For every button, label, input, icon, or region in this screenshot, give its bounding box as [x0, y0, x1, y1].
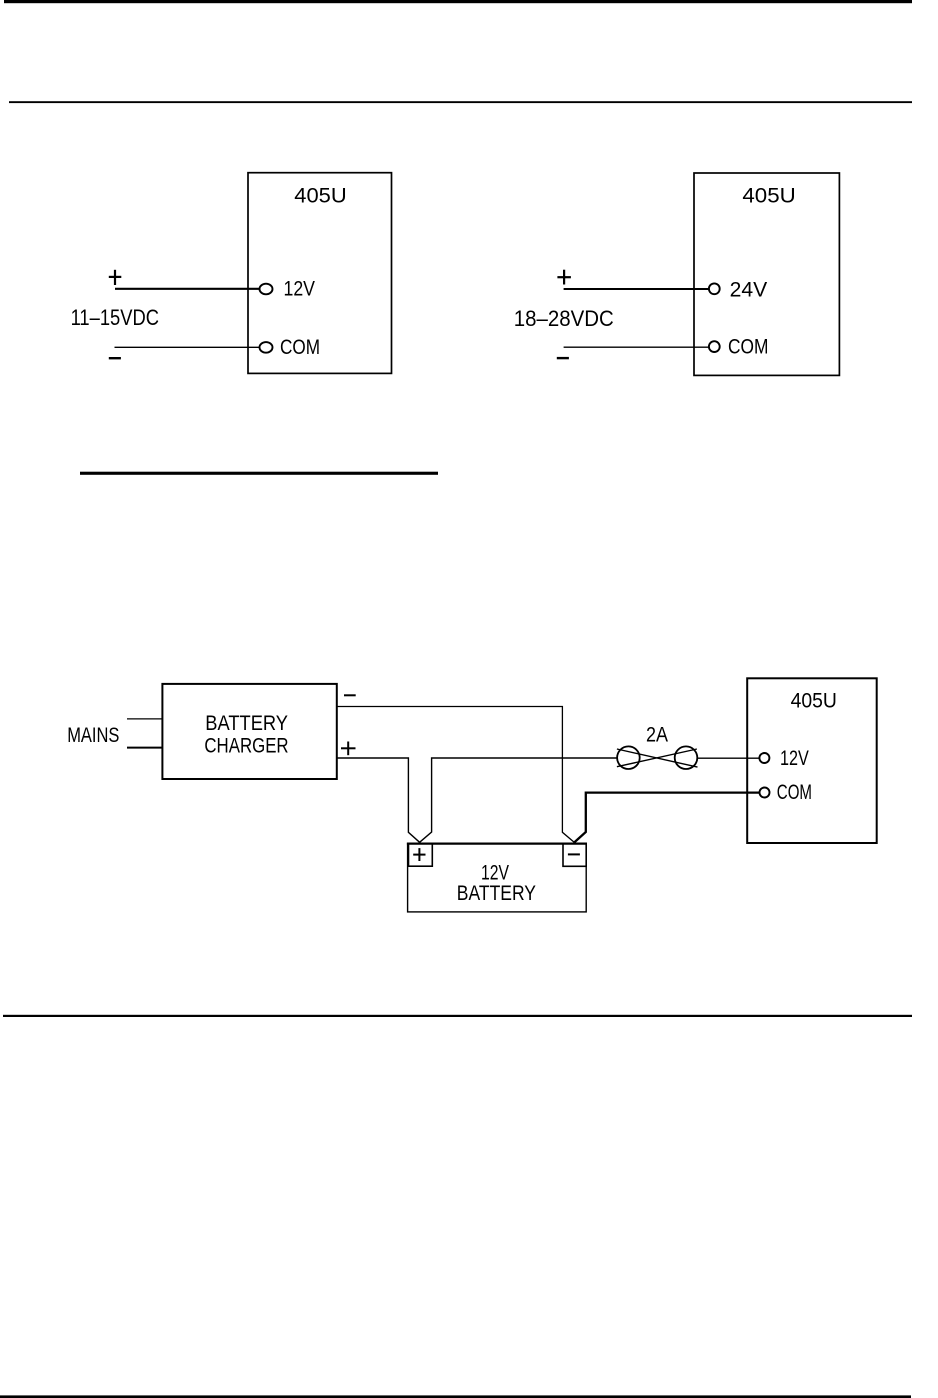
fuse cross line 2	[617, 749, 697, 767]
svg-text:12V: 12V	[284, 278, 316, 301]
page bottom rule	[0, 1395, 911, 1398]
wire - supply1	[115, 346, 262, 348]
svg-text:2A: 2A	[646, 724, 668, 747]
svg-text:CHARGER: CHARGER	[204, 735, 288, 758]
terminal 24V unit2	[709, 283, 720, 294]
svg-text:BATTERY: BATTERY	[205, 712, 288, 735]
minus symbol charger output	[344, 694, 356, 696]
battery top edge	[407, 842, 587, 844]
header bottom rule	[9, 101, 912, 103]
fuse cross line 1	[617, 749, 698, 767]
svg-text:MAINS: MAINS	[67, 724, 119, 747]
minus symbol battery terminal	[568, 853, 580, 855]
wire + supply2	[564, 288, 709, 290]
wire fuse to 12V terminal	[698, 757, 761, 759]
svg-text:18–28VDC: 18–28VDC	[514, 306, 614, 331]
fuse body right circle	[675, 746, 698, 769]
svg-text:24V: 24V	[730, 279, 768, 302]
terminal COM unit2	[709, 341, 720, 352]
minus symbol supply1	[109, 357, 121, 359]
terminal 12V unit3	[759, 753, 769, 763]
box 405U unit1	[248, 173, 392, 374]
svg-text:12V: 12V	[780, 747, 809, 770]
svg-text:405U: 405U	[742, 185, 795, 208]
plus symbol charger output	[341, 742, 356, 756]
svg-text:COM: COM	[728, 336, 768, 359]
plus symbol supply1	[109, 270, 122, 285]
battery negative terminal box	[563, 843, 586, 866]
box 405U unit3	[747, 678, 877, 843]
terminal 12V unit1	[260, 284, 273, 295]
plus symbol battery terminal	[413, 848, 425, 861]
wire - charger to battery	[337, 707, 575, 843]
wire COM to battery negative	[574, 793, 760, 843]
svg-text:BATTERY: BATTERY	[457, 882, 536, 905]
fuse body left circle	[617, 746, 640, 769]
wire - supply2	[564, 346, 710, 348]
footer top rule	[3, 1015, 912, 1017]
minus symbol supply2	[557, 357, 569, 359]
svg-text:11–15VDC: 11–15VDC	[71, 305, 159, 330]
wire + charger to battery	[337, 758, 420, 842]
header top rule	[4, 0, 912, 3]
svg-text:405U: 405U	[791, 690, 837, 713]
wire + battery to fuse	[420, 758, 618, 842]
svg-text:COM: COM	[280, 336, 320, 359]
box 405U unit2	[694, 173, 839, 375]
box 12V battery	[408, 843, 587, 912]
section heading underline	[80, 472, 438, 475]
svg-text:405U: 405U	[294, 185, 346, 208]
box battery charger	[162, 684, 336, 779]
wire + supply1	[115, 288, 261, 290]
plus symbol supply2	[557, 270, 571, 285]
terminal COM unit1	[260, 342, 273, 353]
svg-text:COM: COM	[777, 781, 812, 804]
battery positive terminal box	[409, 843, 433, 866]
terminal COM unit3	[760, 788, 770, 798]
wire mains upper	[127, 718, 163, 720]
wire mains lower	[127, 747, 163, 749]
